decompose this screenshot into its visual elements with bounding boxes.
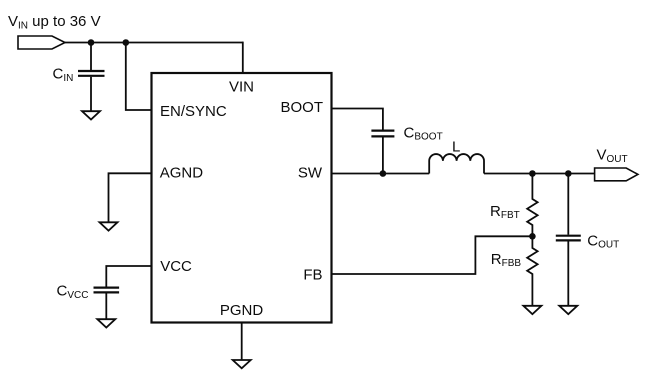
wire AGND pin — [109, 173, 152, 221]
inductor L — [429, 154, 484, 173]
svg-text:EN/SYNC: EN/SYNC — [160, 103, 227, 120]
wire EN/SYNC drop — [126, 43, 152, 111]
wire VIN pin drop — [242, 42, 244, 73]
svg-text:CBOOT: CBOOT — [404, 125, 443, 143]
wire FB pin — [332, 236, 533, 274]
capacitor CIN — [78, 43, 105, 111]
junction node EN/SYNC tap — [123, 39, 130, 46]
svg-text:VIN: VIN — [229, 79, 254, 96]
input tag VIN — [18, 36, 65, 49]
svg-text:BOOT: BOOT — [280, 99, 323, 116]
resistor RFBT — [527, 174, 537, 237]
svg-text:CVCC: CVCC — [57, 283, 89, 302]
ground CIN — [82, 111, 100, 119]
svg-text:VIN up to 36 V: VIN up to 36 V — [8, 13, 101, 32]
ground COUT — [559, 306, 577, 314]
ground PGND — [233, 360, 251, 368]
junction node COUT tap — [565, 170, 572, 177]
junction node CIN tap — [88, 39, 95, 46]
svg-text:RFBB: RFBB — [491, 251, 522, 269]
svg-text:SW: SW — [298, 165, 323, 182]
svg-text:RFBT: RFBT — [490, 203, 520, 221]
capacitor COUT — [556, 236, 581, 306]
svg-text:PGND: PGND — [220, 302, 264, 319]
junction node BOOT/SW — [380, 170, 387, 177]
svg-text:COUT: COUT — [587, 233, 619, 251]
IC U1 buck regulator — [152, 73, 332, 323]
svg-text:VOUT: VOUT — [597, 147, 628, 166]
ground RFBB — [523, 306, 541, 314]
ground AGND — [100, 222, 118, 230]
wire SW pin — [332, 173, 430, 175]
junction node RFBT tap — [529, 170, 536, 177]
svg-text:FB: FB — [303, 266, 322, 283]
wire SW to output tag — [484, 173, 595, 175]
svg-text:VCC: VCC — [160, 258, 192, 275]
wire COUT top — [567, 174, 569, 235]
wire BOOT pin — [332, 109, 383, 130]
capacitor CVCC — [94, 288, 120, 319]
resistor RFBB — [527, 236, 537, 305]
wire VCC pin — [106, 266, 151, 287]
junction node FB tap — [529, 233, 536, 240]
wire input rail — [65, 42, 243, 44]
output tag VOUT — [595, 168, 638, 181]
wire PGND pin — [241, 323, 243, 360]
svg-text:L: L — [452, 139, 460, 156]
svg-text:CIN: CIN — [53, 66, 74, 85]
svg-text:AGND: AGND — [160, 164, 204, 181]
ground CVCC — [97, 319, 115, 327]
capacitor CBOOT — [371, 131, 394, 174]
